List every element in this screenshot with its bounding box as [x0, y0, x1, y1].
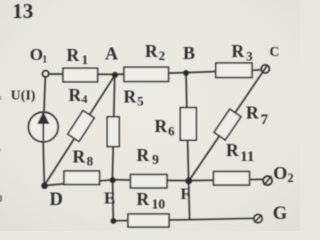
- current source U(I): [29, 112, 59, 142]
- terminal O1: [42, 71, 48, 77]
- resistor R6: [180, 108, 196, 141]
- wire D to E (through R8): [44, 180, 112, 186]
- node D: [41, 183, 47, 189]
- terminal G slash: [255, 215, 261, 222]
- wire diagonal D to A (through R4): [44, 75, 115, 186]
- resistor R3: [216, 63, 252, 78]
- svg-text:B: B: [183, 43, 195, 63]
- resistor R2: [124, 67, 169, 81]
- resistor R11: [214, 172, 250, 186]
- wire bottom rail to G: [113, 218, 254, 221]
- wire A down to E (through R5): [112, 75, 114, 180]
- wire O1 to C (top rail): [49, 70, 261, 75]
- node bottom junction: [111, 218, 117, 224]
- wire F to O2 (through R11): [189, 179, 264, 180]
- svg-text:U(I): U(I): [11, 87, 36, 102]
- wire B down to F (through R6): [186, 73, 189, 181]
- resistor R7: [214, 109, 241, 140]
- svg-text:D: D: [50, 190, 63, 210]
- wire O1 down to current source: [44, 77, 45, 112]
- terminal C: [261, 65, 269, 73]
- svg-text:G: G: [273, 204, 287, 224]
- wire F down to bottom rail: [189, 181, 190, 220]
- resistor R8: [64, 171, 100, 185]
- svg-text:C: C: [270, 44, 280, 59]
- terminal O2: [263, 176, 272, 185]
- wire diagonal C to F (through R7): [189, 66, 267, 181]
- svg-text:E: E: [104, 188, 115, 207]
- resistor R10: [128, 214, 169, 227]
- node F: [185, 178, 192, 185]
- terminal O2 slash: [264, 177, 271, 185]
- node A: [112, 72, 118, 78]
- svg-text:F: F: [181, 186, 191, 203]
- resistor R4: [68, 111, 95, 142]
- resistor R9: [131, 175, 168, 188]
- scan artifact left edge faint mark: [0, 148, 1, 152]
- scan artifact left edge small mark: [0, 96, 2, 100]
- resistor R5: [107, 117, 119, 147]
- wire E to F (through R9): [113, 179, 189, 182]
- svg-text:13: 13: [12, 0, 33, 23]
- node E: [110, 177, 116, 183]
- scan artifact left edge mark: [0, 195, 2, 202]
- node B: [183, 70, 189, 76]
- svg-text:A: A: [105, 44, 118, 64]
- wire E down to bottom junction: [112, 180, 115, 221]
- terminal G: [254, 214, 262, 222]
- resistor R1: [63, 68, 98, 82]
- wire current source down to D: [43, 142, 44, 186]
